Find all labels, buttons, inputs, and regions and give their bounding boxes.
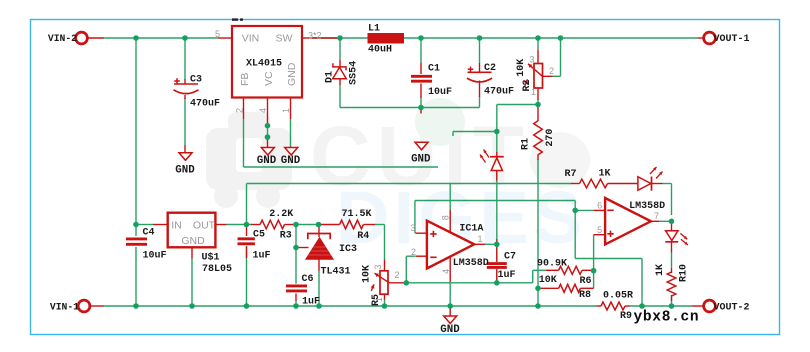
svg-text:1uF: 1uF [253, 251, 271, 262]
svg-text:10uF: 10uF [428, 87, 452, 98]
svg-text:1uF: 1uF [302, 297, 320, 308]
svg-text:VOUT-1: VOUT-1 [714, 34, 750, 45]
svg-text:10K: 10K [516, 59, 527, 77]
svg-text:VIN: VIN [242, 33, 260, 45]
svg-text:U$1: U$1 [202, 252, 220, 264]
svg-text:40uH: 40uH [368, 45, 392, 56]
svg-text:2: 2 [394, 270, 399, 280]
svg-text:10K: 10K [539, 275, 557, 286]
svg-text:1K: 1K [598, 169, 610, 180]
svg-text:2: 2 [411, 247, 416, 257]
svg-text:4: 4 [441, 269, 451, 274]
svg-text:2.2K: 2.2K [269, 209, 293, 220]
svg-text:IC1A: IC1A [459, 224, 483, 235]
svg-text:SW: SW [276, 33, 293, 45]
svg-text:GND: GND [440, 324, 460, 336]
svg-text:8: 8 [440, 215, 450, 220]
svg-text:5: 5 [215, 29, 220, 39]
svg-text:1uF: 1uF [498, 270, 516, 281]
svg-text:R8: R8 [579, 290, 591, 301]
svg-text:0.05R: 0.05R [603, 290, 633, 301]
svg-text:270: 270 [545, 129, 556, 147]
svg-text:VIN-1: VIN-1 [50, 302, 79, 313]
svg-text:GND: GND [175, 165, 195, 177]
svg-text:3: 3 [529, 55, 534, 65]
svg-text:3: 3 [410, 223, 415, 233]
svg-text:470uF: 470uF [190, 99, 220, 110]
svg-text:R6: R6 [579, 276, 591, 287]
svg-text:IC3: IC3 [339, 244, 357, 255]
svg-text:OUT: OUT [193, 220, 216, 232]
svg-text:L1: L1 [368, 24, 380, 35]
svg-text:4: 4 [258, 108, 268, 113]
svg-text:3*2: 3*2 [308, 31, 322, 41]
svg-text:2: 2 [235, 108, 245, 113]
svg-text:C4: C4 [143, 228, 155, 239]
svg-text:2: 2 [549, 66, 554, 76]
svg-text:ybx8.cn: ybx8.cn [634, 310, 700, 326]
svg-text:1: 1 [531, 87, 536, 97]
svg-text:C7: C7 [504, 252, 516, 263]
svg-text:1: 1 [477, 234, 482, 244]
svg-text:GND: GND [286, 62, 298, 86]
svg-text:470uF: 470uF [484, 87, 514, 98]
svg-text:10K: 10K [361, 265, 372, 283]
svg-text:D1: D1 [324, 71, 335, 83]
svg-text:3: 3 [373, 264, 383, 269]
svg-text:VIN-2: VIN-2 [48, 33, 77, 44]
svg-text:C1: C1 [428, 64, 440, 75]
svg-text:C3: C3 [190, 75, 202, 86]
svg-text:R1: R1 [520, 138, 531, 150]
svg-text:LM358D: LM358D [453, 258, 489, 269]
svg-text:IN: IN [171, 220, 182, 232]
svg-text:TL431: TL431 [320, 267, 350, 278]
svg-text:GND: GND [411, 154, 431, 166]
svg-text:10uF: 10uF [143, 251, 167, 262]
svg-text:FB: FB [239, 73, 251, 86]
svg-text:SS54: SS54 [348, 61, 359, 85]
svg-text:GND: GND [257, 155, 277, 167]
svg-text:XL4015: XL4015 [246, 59, 282, 70]
svg-text:C6: C6 [302, 274, 314, 285]
svg-text:R7: R7 [564, 169, 576, 180]
svg-text:R9: R9 [620, 311, 632, 322]
svg-text:C2: C2 [484, 63, 496, 74]
svg-text:LM358D: LM358D [629, 201, 665, 212]
svg-text:7: 7 [654, 211, 659, 221]
svg-text:VC: VC [263, 71, 275, 86]
svg-text:R3: R3 [280, 231, 292, 242]
svg-text:1: 1 [281, 108, 291, 113]
svg-text:71.5K: 71.5K [341, 209, 371, 220]
svg-text:R4: R4 [357, 231, 369, 242]
svg-text:R10: R10 [679, 264, 690, 282]
svg-text:GND: GND [281, 155, 301, 167]
svg-text:1K: 1K [655, 264, 666, 276]
svg-text:6: 6 [597, 201, 602, 211]
svg-text:5: 5 [597, 225, 602, 235]
svg-text:1: 1 [374, 297, 384, 302]
svg-text:VOUT-2: VOUT-2 [714, 303, 750, 314]
svg-text:90.9K: 90.9K [537, 258, 567, 269]
svg-text:78L05: 78L05 [202, 264, 232, 275]
svg-text:GND: GND [181, 235, 205, 247]
svg-text:C5: C5 [253, 230, 265, 241]
